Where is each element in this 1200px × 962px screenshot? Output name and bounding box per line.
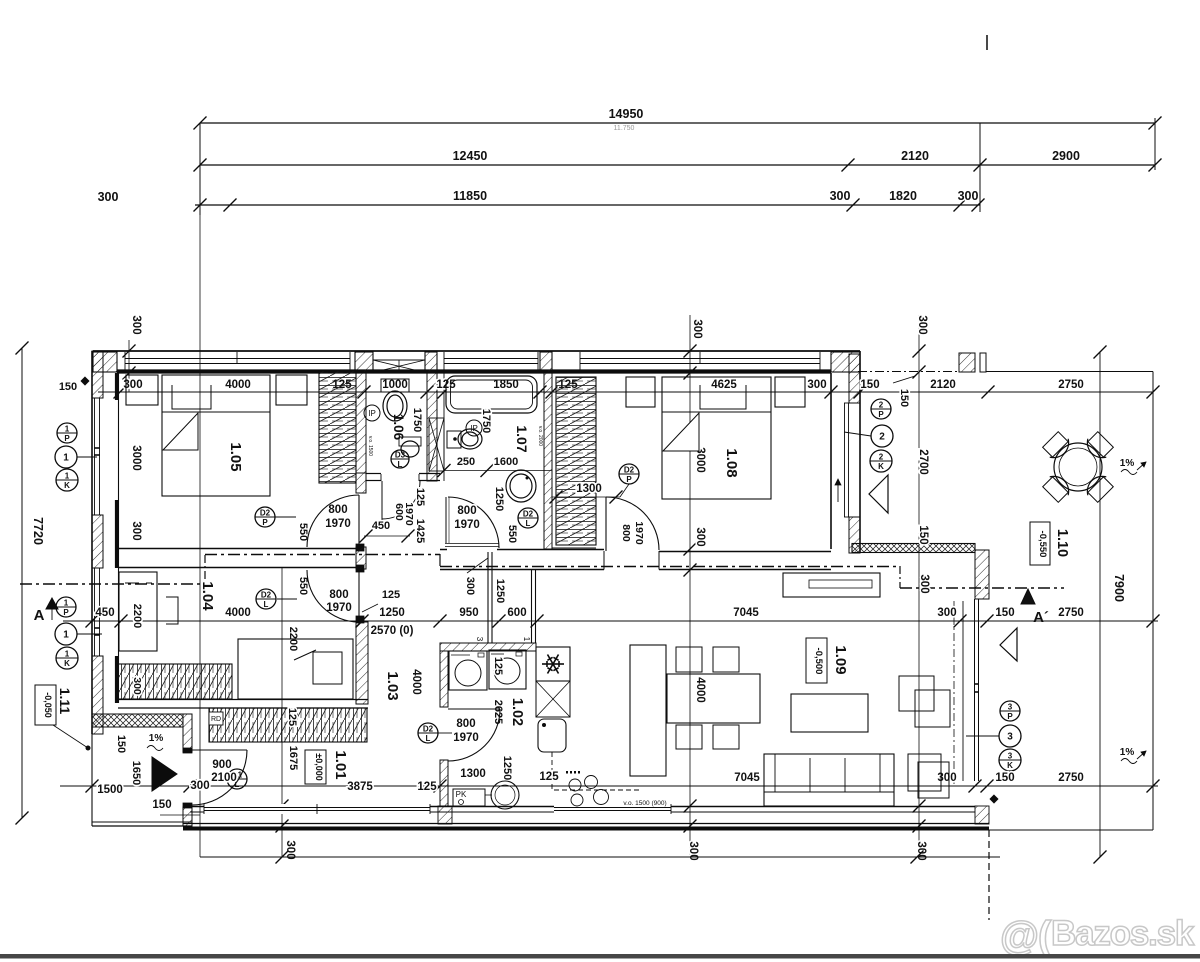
window right W6 room 1.08 — [844, 403, 846, 517]
svg-text:450: 450 — [95, 607, 114, 619]
top wall pier 1.05/1.06 — [355, 352, 373, 372]
PK box gas meter — [453, 789, 485, 806]
svg-text:300: 300 — [190, 780, 209, 792]
svg-text:150: 150 — [898, 389, 910, 407]
svg-text:1250: 1250 — [494, 579, 506, 603]
bed 1 room 1.04 — [119, 572, 157, 651]
wardrobe 1.08 — [556, 377, 596, 545]
svg-text:2100: 2100 — [211, 772, 237, 784]
svg-text:800: 800 — [329, 589, 348, 601]
svg-text:4000: 4000 — [225, 607, 251, 619]
wall pier between doors — [356, 547, 366, 569]
hob X box — [536, 681, 570, 717]
level box -0,050 — [35, 685, 56, 725]
axis bubbles 1/P 1 1/K upper-left — [57, 423, 77, 443]
svg-text:D2: D2 — [624, 466, 635, 475]
top wall corner pier hatch — [93, 352, 117, 372]
svg-text:2750: 2750 — [1058, 607, 1084, 619]
svg-text:IP: IP — [470, 424, 478, 433]
svg-text:125: 125 — [286, 708, 298, 726]
wall 1.04 bottom — [118, 699, 368, 701]
svg-text:Bazos.sk: Bazos.sk — [1051, 914, 1195, 953]
bottom exterior wall inner lines — [190, 806, 975, 808]
svg-text:1600: 1600 — [494, 456, 518, 468]
RD wardrobe 1.01 — [209, 708, 367, 742]
bottom scan bar — [0, 954, 1200, 959]
svg-text:1: 1 — [65, 472, 70, 481]
svg-text:1300: 1300 — [460, 768, 486, 780]
svg-text:IP: IP — [368, 409, 376, 418]
svg-text:7045: 7045 — [733, 607, 759, 619]
left wall inner face line — [118, 373, 120, 703]
svg-text:1250: 1250 — [501, 756, 513, 780]
svg-text:7045: 7045 — [734, 772, 760, 784]
svg-text:1500: 1500 — [97, 784, 123, 796]
sofa — [764, 754, 894, 806]
svg-text:1675: 1675 — [287, 746, 299, 770]
svg-text:150: 150 — [917, 525, 929, 544]
wall segment below 1.06 wall — [356, 473, 366, 493]
wall below 1.04 door hatched — [356, 622, 368, 704]
door D3/L 1.06 — [391, 450, 409, 468]
svg-text:2900: 2900 — [1052, 149, 1080, 163]
svg-text:150: 150 — [59, 381, 77, 393]
kitchen top wall — [440, 643, 536, 651]
right wall hatch top — [849, 354, 860, 403]
svg-text:1.04: 1.04 — [199, 581, 216, 611]
svg-text:K: K — [878, 462, 884, 471]
right exterior wall upper — [859, 351, 861, 553]
bath door leaf and arc — [445, 497, 447, 543]
svg-text:300: 300 — [830, 189, 851, 203]
svg-text:1970: 1970 — [454, 519, 480, 531]
bed 1.05 — [162, 375, 270, 496]
dimension line 300 / 11850 / 300 / 1820 / 300 — [195, 204, 980, 206]
svg-text:2750: 2750 — [1058, 772, 1084, 784]
svg-text:D2: D2 — [261, 591, 272, 600]
wall 1.07|1.08 hatched — [544, 373, 552, 549]
svg-text:800: 800 — [456, 718, 475, 730]
bottom exterior wall outer band — [183, 823, 989, 825]
black diamond mark bottom — [990, 795, 998, 803]
witness line x=282 — [281, 568, 283, 857]
bidet 1.07 — [447, 431, 461, 448]
svg-text:11850: 11850 — [453, 189, 487, 203]
svg-text:125: 125 — [417, 781, 437, 793]
svg-text:A´: A´ — [1033, 609, 1049, 626]
svg-text:1820: 1820 — [889, 189, 917, 203]
open triangle marker terrace top — [869, 475, 888, 513]
svg-text:2120: 2120 — [930, 379, 956, 391]
parapet wall terrace 1.10 — [852, 544, 975, 553]
dim connector verticals — [199, 123, 201, 215]
witness line x=129 — [128, 340, 130, 392]
coffee table — [791, 694, 868, 732]
svg-text:300: 300 — [918, 574, 930, 593]
toilet 1.06 — [381, 379, 409, 392]
bed 2 room 1.04 — [238, 639, 353, 699]
svg-text:1970: 1970 — [403, 502, 415, 526]
svg-text:12450: 12450 — [453, 149, 488, 163]
parapet pier right — [975, 550, 989, 599]
section line A-A — [20, 583, 205, 585]
svg-text:1000: 1000 — [382, 379, 408, 391]
svg-text:1: 1 — [65, 425, 70, 434]
svg-text:125: 125 — [414, 488, 426, 506]
svg-text:3: 3 — [475, 637, 484, 642]
shaft X box — [429, 418, 444, 471]
svg-text:300: 300 — [807, 379, 826, 391]
lower terrace bottom edge — [989, 829, 1153, 831]
rain pipe dashed line — [988, 830, 990, 920]
svg-text:2120: 2120 — [901, 149, 929, 163]
svg-text:1850: 1850 — [493, 379, 519, 391]
IP circle 1.07 — [466, 420, 482, 436]
svg-text:1.05: 1.05 — [227, 442, 244, 471]
svg-text:L: L — [426, 734, 431, 743]
bed 1.08 blanket fold — [663, 413, 699, 451]
svg-text:2: 2 — [879, 401, 884, 410]
left wall hatch mid — [92, 515, 103, 568]
section marker A' — [1021, 589, 1035, 604]
dim line 250 1600 — [444, 470, 552, 472]
kitchen island — [630, 645, 666, 776]
svg-text:P: P — [63, 608, 69, 617]
kitchen left wall upper — [440, 651, 448, 707]
svg-text:@(: @( — [1000, 914, 1052, 958]
entry door leaf and arc — [192, 749, 247, 751]
porch top insulated wall — [92, 714, 183, 727]
entry door jambs — [183, 748, 192, 753]
left wall hatch bottom — [92, 656, 103, 734]
wardrobe 1.05 — [319, 371, 356, 483]
svg-text:1300: 1300 — [576, 483, 602, 495]
bed 1.05 blanket fold — [163, 413, 198, 450]
svg-text:300: 300 — [958, 189, 979, 203]
svg-text:2200: 2200 — [131, 604, 143, 628]
door 1.06 leaf and arc — [381, 481, 383, 530]
svg-text:300: 300 — [464, 577, 476, 595]
hall wall x488 — [487, 552, 489, 643]
dryer — [489, 650, 526, 689]
svg-text:2: 2 — [879, 432, 885, 443]
terrace right edge — [1152, 372, 1154, 831]
svg-text:4625: 4625 — [711, 379, 737, 391]
svg-text:3: 3 — [1008, 703, 1013, 712]
svg-text:-0,500: -0,500 — [813, 648, 824, 675]
svg-text:300: 300 — [98, 190, 119, 204]
terrace chairs — [1083, 472, 1115, 504]
svg-text:1.07: 1.07 — [514, 425, 530, 452]
door arc 1.05 — [358, 495, 360, 547]
svg-text:150: 150 — [152, 799, 171, 811]
svg-text:1250: 1250 — [379, 607, 405, 619]
svg-text:K: K — [1007, 761, 1013, 770]
svg-text:300: 300 — [937, 772, 956, 784]
svg-text:2: 2 — [879, 453, 884, 462]
svg-text:1970: 1970 — [325, 518, 351, 530]
svg-text:±0,000: ±0,000 — [314, 753, 324, 780]
svg-text:300: 300 — [694, 527, 706, 546]
svg-text:300: 300 — [130, 315, 142, 334]
door jamb blocks 1.05/1.04 doors — [356, 544, 364, 551]
svg-text:1425: 1425 — [414, 519, 426, 543]
svg-text:P: P — [1007, 712, 1013, 721]
window left W4 room 1.05 — [94, 398, 96, 515]
window W3 room 1.08 — [580, 358, 820, 360]
svg-text:125: 125 — [492, 657, 504, 675]
dim chain y786 — [60, 785, 1158, 787]
axis bubbles 1/P 1 1/K lower-left — [56, 597, 76, 617]
nightstand 1.08 right — [775, 377, 805, 407]
living terrace boundary dashdot — [953, 601, 955, 784]
wall between 1.05 and 1.04 — [119, 548, 356, 550]
section marker A — [46, 598, 58, 609]
kitchen sink square — [538, 719, 566, 752]
wall 1.05|1.06 hatched — [356, 373, 366, 473]
svg-text:1750: 1750 — [411, 408, 423, 432]
kitchen door D2/L — [418, 723, 438, 743]
svg-text:3875: 3875 — [347, 781, 373, 793]
svg-text:2625: 2625 — [492, 700, 504, 724]
dimension line 12450 / 2120 / 2900 — [200, 164, 1155, 166]
svg-text:P: P — [64, 434, 70, 443]
bottom wall pier at kitchen — [438, 806, 452, 824]
svg-text:800: 800 — [620, 524, 632, 542]
level box -0,500 — [806, 638, 827, 683]
svg-text:1: 1 — [63, 453, 69, 464]
svg-text:600: 600 — [507, 607, 526, 619]
svg-text:300: 300 — [687, 841, 699, 860]
wall 1.08 to 1.09 — [603, 551, 605, 570]
svg-text:D3: D3 — [395, 451, 406, 460]
window left W5 room 1.04 — [94, 568, 96, 656]
small washbasin 1.06 — [399, 437, 421, 446]
entry door D1/L — [227, 769, 247, 789]
svg-text:2750: 2750 — [1058, 379, 1084, 391]
left exterior wall outer edge — [91, 351, 93, 734]
svg-text:14950: 14950 — [609, 107, 644, 121]
wardrobe 1.04 — [118, 664, 232, 699]
svg-text:2570 (0): 2570 (0) — [371, 625, 414, 637]
svg-text:4000: 4000 — [410, 669, 422, 695]
porch outline — [91, 727, 93, 826]
axis line x=200 — [199, 215, 201, 857]
axis line x=919 — [918, 315, 920, 853]
top exterior wall inner face — [117, 369, 831, 373]
svg-text:2700: 2700 — [917, 449, 929, 475]
wall hall to bath band left — [440, 549, 447, 551]
svg-text:950: 950 — [459, 607, 478, 619]
svg-text:RD: RD — [211, 716, 221, 723]
bottom window 1.01 — [204, 804, 430, 814]
dim chain y621 — [63, 620, 1158, 622]
svg-text:-0,050: -0,050 — [43, 692, 53, 718]
svg-text:L: L — [264, 600, 269, 609]
svg-text:125: 125 — [382, 589, 400, 601]
svg-text:D2: D2 — [523, 510, 534, 519]
IP circle 1.06 — [364, 405, 380, 421]
hall wall x531 — [531, 569, 533, 643]
bed 1.08 pillow — [700, 385, 746, 409]
axis line x=1100 dim 7900 — [1099, 352, 1101, 857]
kitchen door leaf and arc — [448, 708, 500, 710]
svg-text:v.o. 1500: v.o. 1500 — [367, 436, 373, 456]
svg-text:550: 550 — [506, 525, 518, 543]
right wall hatch lower — [849, 517, 860, 553]
nightstand 1.05 right — [276, 375, 307, 405]
top wall pier 1.07/1.08 — [540, 352, 552, 372]
svg-text:1650: 1650 — [130, 761, 142, 785]
wall 1.06 bottom with door — [366, 473, 381, 475]
svg-text:800: 800 — [457, 505, 476, 517]
svg-text:800: 800 — [328, 504, 347, 516]
svg-text:D2: D2 — [423, 725, 434, 734]
window opening arrow room 1.08 — [837, 481, 839, 502]
leader to porch — [53, 725, 88, 748]
door D2/L 1.07 — [518, 508, 538, 528]
door arc 1.04 — [358, 570, 360, 622]
bottom dim line y857 — [200, 856, 1000, 858]
svg-text:1%: 1% — [149, 733, 164, 744]
svg-text:v.o. 2000: v.o. 2000 — [537, 426, 543, 446]
svg-text:P: P — [878, 410, 884, 419]
bottom wall pier right — [975, 806, 989, 824]
fridge with snowflake — [536, 647, 570, 681]
door 1.08 leaf and arc — [605, 497, 607, 551]
svg-text:4000: 4000 — [225, 379, 251, 391]
svg-text:900: 900 — [212, 759, 231, 771]
svg-text:300: 300 — [131, 677, 143, 695]
svg-text:K: K — [64, 659, 70, 668]
svg-text:D2: D2 — [260, 509, 271, 518]
svg-text:150: 150 — [115, 735, 127, 753]
svg-text:P: P — [626, 475, 632, 484]
svg-text:3: 3 — [1007, 732, 1013, 743]
svg-text:1.10: 1.10 — [1054, 529, 1070, 557]
svg-text:P: P — [262, 518, 268, 527]
bottom-right glass wall living 1.09 — [974, 599, 976, 781]
watermark bazos — [1000, 914, 1195, 958]
black diamond mark top-left — [81, 377, 89, 385]
top exterior wall outer face — [93, 350, 860, 352]
svg-text:1%: 1% — [1120, 458, 1135, 469]
svg-text:550: 550 — [297, 577, 309, 595]
entry wall hatched — [183, 714, 192, 752]
window W2 room 1.07 — [444, 358, 538, 360]
svg-text:150: 150 — [860, 379, 879, 391]
kitchen left wall lower — [440, 760, 448, 806]
bottom window kitchen/living — [554, 804, 671, 814]
svg-text:1%: 1% — [1120, 747, 1135, 758]
svg-text:3000: 3000 — [130, 445, 142, 471]
porch ramp arrow — [152, 757, 177, 791]
shaft lines — [436, 373, 438, 481]
svg-text:4000: 4000 — [694, 677, 706, 703]
bed 1.05 pillow — [172, 385, 211, 409]
counter dashed lines — [551, 752, 553, 789]
dim 1300 1.08 — [552, 496, 620, 498]
svg-text:-0,550: -0,550 — [1037, 531, 1048, 558]
axis line x=690 — [689, 315, 691, 857]
terrace table — [1054, 443, 1102, 491]
dining chairs — [676, 647, 702, 672]
dim chain through rooms y392 — [98, 391, 1153, 393]
svg-text:7720: 7720 — [31, 517, 45, 545]
door D2/P 1.08 — [619, 464, 639, 484]
nightstand 1.08 left — [626, 377, 655, 407]
axis bubbles 2/P 2 2/K terrace — [871, 399, 891, 419]
svg-text:300: 300 — [691, 319, 703, 338]
svg-text:1: 1 — [65, 650, 70, 659]
svg-text:K: K — [64, 481, 70, 490]
washing machine — [449, 651, 487, 690]
svg-text:1: 1 — [522, 637, 531, 642]
svg-text:1970: 1970 — [326, 602, 352, 614]
svg-text:PK: PK — [456, 790, 467, 799]
svg-text:1.03: 1.03 — [384, 671, 401, 700]
level box -0,550 — [1030, 522, 1050, 565]
left dim 7720 — [21, 348, 23, 818]
svg-text:1250: 1250 — [493, 487, 505, 511]
svg-text:1.09: 1.09 — [832, 645, 849, 674]
dining table — [667, 674, 760, 723]
svg-text:1: 1 — [63, 630, 69, 641]
chair bracket 1.04 — [166, 597, 178, 624]
terrace 1.10 top edge — [858, 371, 959, 373]
dimension line 14950 — [200, 122, 1155, 124]
level box 0,000 — [305, 750, 326, 784]
svg-text:1970: 1970 — [453, 732, 479, 744]
svg-text:3: 3 — [1008, 752, 1013, 761]
svg-text:300: 300 — [130, 521, 142, 540]
svg-text:1.11: 1.11 — [57, 688, 73, 715]
svg-text:125: 125 — [539, 771, 559, 783]
svg-text:7900: 7900 — [1112, 574, 1126, 602]
kitchen sink circle — [491, 781, 519, 809]
TV sideboard — [783, 573, 880, 597]
nightstand 1.05 left — [126, 375, 158, 405]
svg-text:250: 250 — [457, 456, 475, 468]
bed 1.08 — [662, 377, 771, 499]
door D2/L room 1.04 — [256, 589, 276, 609]
svg-text:300: 300 — [937, 607, 956, 619]
svg-text:1.01: 1.01 — [332, 750, 349, 779]
top wall right corner hatch — [831, 352, 860, 372]
shaft above room 1.06 — [373, 360, 425, 373]
svg-text:A: A — [34, 607, 45, 624]
svg-text:150: 150 — [995, 607, 1014, 619]
top wall pier 1.06/1.07 — [425, 352, 437, 372]
bathtub 1.07 — [446, 376, 537, 413]
svg-text:L: L — [526, 519, 531, 528]
svg-text:1.08: 1.08 — [723, 448, 740, 477]
svg-text:300: 300 — [916, 315, 928, 334]
svg-text:1.02: 1.02 — [509, 698, 525, 726]
left wall hatch top — [92, 351, 103, 398]
cooktop burners — [569, 779, 581, 791]
window W1 room 1.05 — [125, 358, 350, 360]
armchair 2 — [908, 754, 941, 791]
svg-text:150: 150 — [995, 772, 1014, 784]
svg-text:1970: 1970 — [633, 521, 645, 545]
door D2/P room 1.05 — [255, 507, 275, 527]
open triangle marker lower right — [1000, 628, 1017, 661]
wall 1.06|shaft — [427, 373, 437, 481]
svg-text:L: L — [398, 460, 403, 469]
terrace top piers — [959, 353, 975, 372]
bath door threshold — [445, 543, 499, 545]
